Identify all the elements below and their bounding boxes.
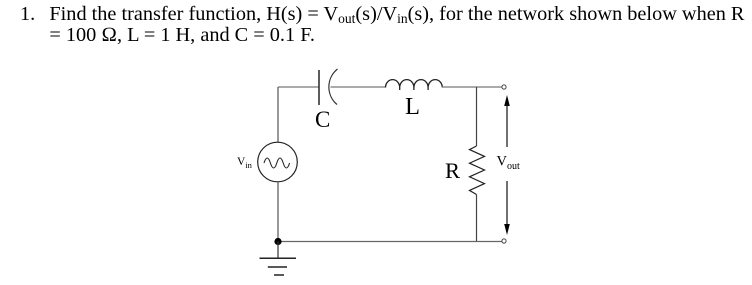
wire top-left horizontal (278, 86, 319, 88)
svg-text:L: L (405, 93, 420, 120)
problem statement line 2 (20, 25, 315, 46)
wire left vertical bottom (source to ground node) (277, 182, 279, 242)
svg-text:C: C (315, 107, 330, 132)
Vout arrow up (504, 95, 510, 147)
svg-text:Vin: Vin (237, 156, 253, 170)
wire inductor to top-right terminal (442, 86, 501, 88)
ground stub wire (277, 242, 279, 259)
resistor label R (445, 158, 460, 183)
inductor label L (405, 93, 420, 120)
wire capacitor to inductor (331, 86, 386, 88)
problem statement line 1 (20, 4, 744, 25)
capacitor label C (315, 107, 330, 132)
node terminal top-right (502, 85, 506, 89)
resistor R1 zigzag (470, 146, 485, 195)
capacitor C1 right curved plate (329, 69, 338, 105)
svg-text:Vout: Vout (497, 154, 520, 173)
Vout arrow down (504, 181, 510, 235)
source Vin circle (258, 142, 298, 182)
inductor L1 coil (386, 80, 443, 90)
wire left vertical top (source to top wire) (277, 87, 279, 143)
Vin label (237, 156, 253, 170)
wire R branch top (476, 87, 478, 146)
junction node dot (274, 238, 281, 245)
Vout label (497, 154, 520, 173)
wire bottom horizontal (278, 241, 502, 243)
source Vin sine wave (264, 158, 290, 168)
svg-text:R: R (445, 158, 460, 183)
node terminal bottom-right (502, 239, 506, 243)
ground symbol bars (260, 258, 297, 275)
capacitor C1 left plate (318, 70, 320, 105)
wire R branch bottom (476, 195, 478, 242)
